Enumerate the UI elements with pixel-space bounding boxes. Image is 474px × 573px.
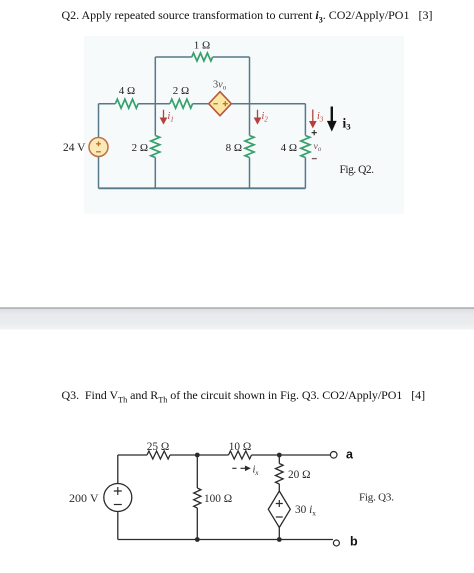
svg-text:b: b: [350, 535, 358, 549]
wire: Q2 main wire left segment: [99, 103, 116, 105]
wire: Q3 left vertical above source: [117, 455, 119, 484]
label plus of vo: [312, 130, 317, 135]
label minus inside diamond: [213, 103, 218, 105]
label minus of vo: [312, 158, 317, 160]
wire: Q2 4ohm branch lower stub: [304, 158, 306, 189]
wire: Q2 top-loop top-right segment: [213, 56, 250, 58]
current arrow i3 bold black: [329, 107, 335, 129]
svg-text:20 Ω: 20 Ω: [288, 469, 311, 481]
svg-text:4 Ω: 4 Ω: [281, 142, 297, 154]
wire: Q3 top wire left segment: [118, 454, 147, 456]
label minus inside 200V: [114, 504, 122, 506]
Q2 question header text: [62, 8, 433, 24]
node dot at 100ohm top: [195, 453, 200, 458]
wire: Q3 100ohm branch upper stub: [196, 455, 198, 488]
svg-text:Fig. Q3.: Fig. Q3.: [359, 492, 394, 504]
svg-text:10 Ω: 10 Ω: [229, 441, 252, 453]
voltage source 24V circle: [89, 138, 108, 157]
resistor 2ohm horizontal: [170, 99, 193, 108]
svg-text:a: a: [346, 448, 354, 462]
current arrow i3 red: [310, 110, 316, 128]
wire: Q2 top-loop right vertical: [249, 57, 251, 104]
wire: Q2 left vertical above 24V source: [98, 104, 100, 138]
wire: Q3 top wire to terminal a: [279, 454, 330, 456]
voltage source 200V circle: [104, 484, 132, 512]
node dot at 20ohm top: [277, 453, 282, 458]
resistor 1ohm: [192, 53, 213, 61]
wire: Q3 20ohm branch upper stub: [278, 455, 280, 464]
node dot 100ohm bottom: [195, 537, 200, 542]
page-gap separator shadow line: [0, 307, 474, 309]
current arrow ix dashed: [232, 466, 249, 470]
resistor 10ohm: [229, 451, 252, 459]
svg-text:ix: ix: [253, 465, 260, 478]
wire: Q2 main wire between 2ohm and dependent source: [193, 103, 209, 105]
wire: Q2 2ohm branch upper stub: [154, 104, 156, 136]
label plus inside 200V: [114, 487, 122, 495]
svg-text:8 Ω: 8 Ω: [226, 142, 242, 154]
wire: Q3 top wire between 10ohm and right node: [252, 454, 280, 456]
wire: Q2 2ohm branch lower stub: [154, 158, 156, 189]
wire: Q2 top-loop left vertical: [154, 57, 156, 104]
svg-text:100 Ω: 100 Ω: [204, 493, 232, 505]
wire: Q3 left vertical below source: [117, 512, 119, 540]
svg-text:30 ix: 30 ix: [295, 504, 316, 518]
resistor 25ohm: [147, 451, 170, 459]
wire: Q2 bottom wire: [99, 187, 306, 189]
label plus inside diamond: [223, 101, 228, 106]
svg-text:4 Ω: 4 Ω: [119, 85, 135, 97]
svg-text:2 Ω: 2 Ω: [173, 85, 189, 97]
resistor 4ohm vertical: [301, 136, 310, 158]
svg-text:2 Ω: 2 Ω: [132, 142, 148, 154]
dependent source 3vo diamond: [209, 92, 232, 116]
svg-text:25 Ω: 25 Ω: [147, 441, 170, 453]
svg-text:1 Ω: 1 Ω: [194, 40, 210, 52]
wire: Q2 8ohm branch lower stub: [249, 158, 251, 189]
terminal b circle: [333, 540, 339, 546]
wire: Q2 4ohm branch upper stub: [304, 104, 306, 136]
svg-text:200 V: 200 V: [69, 491, 99, 505]
wire: Q3 below dependent source: [278, 528, 280, 540]
terminal a circle: [330, 452, 337, 459]
wire: Q2 main wire between 4ohm and 2ohm: [138, 103, 170, 105]
wire: Q2 top-loop top-left segment: [155, 56, 192, 58]
wire: Q3 bottom wire: [118, 539, 333, 541]
wire: Q2 main wire right of dependent source: [231, 103, 305, 105]
resistor 20ohm: [276, 464, 284, 485]
Q2 faint scan tint: [84, 36, 404, 214]
current arrow i1: [161, 110, 167, 124]
wire: Q3 top wire between 25ohm and 10ohm: [170, 454, 229, 456]
wire: Q3 between 20ohm and dependent source: [278, 484, 280, 491]
wire: Q3 100ohm branch lower stub: [196, 508, 198, 540]
current arrow i2: [255, 110, 261, 124]
resistor 4ohm horizontal: [115, 99, 138, 108]
dependent source 30ix diamond: [268, 491, 290, 528]
page-gap separator grey band: [0, 309, 474, 330]
resistor 8ohm vertical: [245, 136, 254, 158]
svg-text:Fig. Q2.: Fig. Q2.: [340, 164, 375, 176]
node dot dependent source bottom: [277, 537, 282, 542]
svg-text:24 V: 24 V: [63, 142, 86, 154]
wire: Q2 8ohm branch upper stub: [249, 104, 251, 136]
wire: Q2 left vertical below 24V source: [98, 157, 100, 189]
resistor 2ohm vertical: [151, 136, 160, 158]
label plus inside 30ix: [276, 500, 283, 507]
label minus inside 30ix: [276, 516, 283, 518]
resistor 100ohm: [194, 488, 201, 508]
label minus inside 24V: [96, 151, 101, 153]
Q3 question header text: [62, 388, 426, 404]
label plus inside 24V: [96, 141, 101, 146]
